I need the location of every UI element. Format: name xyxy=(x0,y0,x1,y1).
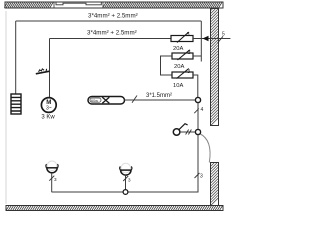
node C junction xyxy=(123,190,128,195)
svg-text:3: 3 xyxy=(188,50,191,56)
window in top wall xyxy=(54,2,103,8)
wire fuse F3 down to node A xyxy=(193,75,198,97)
riser node B to bottom bus xyxy=(52,135,199,192)
wire switch S1 to node B with 2 slashes xyxy=(180,130,196,135)
svg-text:3*4mm² + 2.5mm²: 3*4mm² + 2.5mm² xyxy=(88,13,138,20)
wall right lower xyxy=(211,163,219,206)
luminaire 60w strip light xyxy=(88,97,125,105)
switch S1 near door xyxy=(173,124,187,136)
bus riser xyxy=(200,21,202,62)
wire fuse F1 to supply entry xyxy=(193,38,230,40)
wall top xyxy=(4,2,223,8)
wire lamp L2 stem xyxy=(125,175,127,189)
fuse F1 20A xyxy=(171,32,193,52)
lamp L2 xyxy=(120,163,132,175)
svg-text:3: 3 xyxy=(187,32,190,38)
riser node A to node B xyxy=(197,103,199,130)
wire W2 motor feeder xyxy=(50,38,172,40)
svg-text:4: 4 xyxy=(201,107,204,113)
svg-text:3: 3 xyxy=(128,177,131,182)
bracket wire F2 F3 common xyxy=(161,56,173,75)
wire W2 drop to motor xyxy=(49,39,51,98)
svg-text:3*1.5mm²: 3*1.5mm² xyxy=(146,93,172,99)
conductor slash 3 lamp L1 xyxy=(49,176,54,181)
wire fuse F2 to bus xyxy=(193,55,201,57)
wall left faint line xyxy=(5,11,7,204)
svg-text:3 Kw: 3 Kw xyxy=(41,115,55,121)
wire lamp L1 stem xyxy=(51,173,53,192)
wire W1 heater feeder xyxy=(16,20,202,22)
node B junction xyxy=(195,129,200,134)
motor M1 xyxy=(41,98,56,113)
conductor slash 3 on riser xyxy=(195,173,200,178)
fuse F2 20A xyxy=(172,50,193,70)
wall bottom xyxy=(6,206,223,211)
svg-text:3: 3 xyxy=(200,174,203,180)
supply conductor slash 5 xyxy=(218,36,224,43)
svg-text:60w: 60w xyxy=(91,99,98,103)
conductor slash 3 lamp L2 xyxy=(123,176,128,181)
svg-text:3: 3 xyxy=(54,177,57,182)
lamp L1 xyxy=(46,161,58,173)
svg-text:20A: 20A xyxy=(174,64,184,70)
heater element E1 xyxy=(11,94,21,114)
conductor slash 4 xyxy=(194,109,199,114)
wire luminaire to node A xyxy=(125,99,196,101)
wall right upper xyxy=(211,9,219,126)
svg-text:3~: 3~ xyxy=(46,106,52,112)
svg-text:3: 3 xyxy=(187,69,190,75)
switch Q1 motor isolator xyxy=(36,69,50,74)
svg-text:10A: 10A xyxy=(173,83,183,89)
fuse F3 10A xyxy=(172,69,193,89)
supply arrow xyxy=(203,36,209,41)
svg-text:20A: 20A xyxy=(173,46,183,52)
svg-text:3*4mm² + 2.5mm²: 3*4mm² + 2.5mm² xyxy=(87,30,137,37)
wire W1 drop to heater xyxy=(15,21,17,94)
door swing arc xyxy=(200,134,211,163)
conductor slash on lamp wire xyxy=(132,96,137,103)
node A junction xyxy=(195,97,200,102)
svg-text:5: 5 xyxy=(222,32,225,38)
